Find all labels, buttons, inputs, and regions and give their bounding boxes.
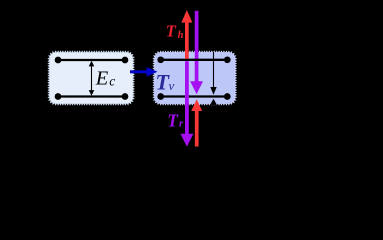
left reservoir box (capacitor energy box) bbox=[48, 51, 134, 105]
svg-text:T: T bbox=[167, 110, 179, 130]
blue energy transfer arrow bbox=[130, 67, 158, 77]
black field arrow down inside right box bbox=[210, 52, 216, 95]
label E_c bbox=[95, 67, 116, 89]
red heat arrow up (top, T_h) bbox=[181, 10, 192, 59]
capacitor plate bottom (right box) bbox=[157, 93, 230, 100]
E_c gap double arrow bbox=[89, 61, 95, 96]
svg-text:h: h bbox=[178, 30, 184, 41]
capacitor plate top (right box) bbox=[157, 56, 230, 63]
svg-text:T: T bbox=[166, 21, 177, 40]
label T_v bbox=[156, 70, 175, 95]
label T_h bbox=[166, 21, 184, 41]
right box (capacitor with heat flows) bbox=[153, 51, 236, 105]
label T_r bbox=[167, 110, 184, 130]
red heat arrow up from below bbox=[191, 99, 202, 146]
svg-text:E: E bbox=[95, 67, 109, 89]
black up arrowhead below bottom plate bbox=[210, 99, 217, 105]
purple inflow line with down arrowhead onto bottom plate bbox=[190, 11, 203, 94]
svg-text:c: c bbox=[109, 74, 115, 89]
purple heat arrow down (bottom, T_r) bbox=[180, 61, 193, 146]
capacitor plate bottom (left box) bbox=[55, 93, 129, 100]
capacitor plate top (left box) bbox=[55, 57, 129, 64]
svg-text:v: v bbox=[169, 78, 175, 93]
